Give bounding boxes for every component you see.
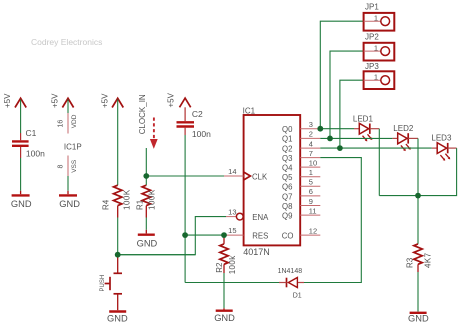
LED LED1	[359, 123, 372, 141]
pin stub Q5 pin 1	[300, 176, 320, 178]
pin name CO	[282, 231, 294, 240]
svg-text:CLOCK_IN: CLOCK_IN	[138, 94, 147, 134]
label C1	[26, 128, 37, 138]
pin stub Q6 pin 5	[300, 185, 320, 187]
svg-text:CLK: CLK	[252, 173, 268, 182]
label LED1	[353, 114, 374, 123]
wire ENA net	[118, 217, 237, 255]
label R4	[102, 199, 111, 210]
svg-text:Q5: Q5	[282, 173, 293, 182]
pin stub Q0 pin 3	[300, 128, 320, 130]
pin number 12	[309, 226, 317, 235]
svg-text:C2: C2	[192, 109, 203, 119]
label PUSH	[100, 275, 106, 292]
svg-text:Q6: Q6	[282, 183, 292, 192]
svg-text:Codrey Electronics: Codrey Electronics	[31, 37, 102, 47]
svg-text:JP1: JP1	[365, 3, 379, 12]
pin number 3	[309, 120, 313, 129]
pin number 7	[309, 149, 313, 158]
pin number 14	[228, 167, 236, 176]
svg-text:CO: CO	[282, 231, 294, 240]
ground symbol (R1)	[137, 230, 158, 249]
resistor R4	[114, 185, 122, 217]
label JP3	[365, 62, 379, 71]
IC1P VSS pin 8	[57, 156, 78, 177]
label JP1	[365, 3, 379, 12]
capacitor C1	[12, 133, 29, 158]
resistor R1	[142, 176, 150, 218]
power +5V supply symbol (C1 column)	[3, 93, 26, 108]
wire JP2 to Q output	[330, 51, 364, 138]
wire +5V to R4	[117, 100, 119, 186]
svg-text:+5V: +5V	[167, 92, 176, 107]
pin number 15	[228, 226, 236, 235]
pin 1 label (JP2)	[374, 43, 378, 52]
wire LED2 cathode down to rail	[408, 138, 418, 195]
capacitor C2	[177, 107, 195, 135]
svg-text:16: 16	[57, 120, 64, 128]
svg-text:100n: 100n	[192, 129, 211, 139]
wire Q0 row to LED1	[320, 128, 359, 130]
pin number 1	[309, 168, 313, 177]
label R2	[215, 262, 224, 273]
svg-text:VDD: VDD	[71, 114, 78, 128]
pin number 13	[228, 207, 236, 216]
clock input dashed arrow	[150, 118, 158, 149]
pin stub CO pin 12	[300, 234, 320, 236]
pin 1 label (JP3)	[374, 72, 378, 81]
junction node RES/R2	[221, 232, 227, 238]
pin name Q6	[282, 183, 292, 192]
ground symbol (R3)	[408, 313, 429, 324]
svg-text:PUSH: PUSH	[100, 275, 106, 292]
title text Codrey Electronics	[31, 37, 102, 47]
wire R4 to junction	[117, 218, 119, 255]
svg-text:LED3: LED3	[431, 134, 452, 143]
svg-text:100K: 100K	[122, 189, 131, 210]
value 4K7 (R3)	[423, 252, 432, 268]
wire RES horizontal	[185, 234, 224, 236]
svg-text:R3: R3	[405, 257, 414, 268]
wire R3 to ground	[417, 272, 419, 312]
svg-text:4: 4	[309, 139, 313, 148]
pin name Q0	[282, 125, 293, 134]
svg-text:1N4148: 1N4148	[278, 268, 303, 275]
label LED3	[431, 134, 452, 143]
wire LED3 cathode down to rail	[379, 148, 456, 196]
connector JP1	[364, 13, 395, 31]
pin stub Q4 pin 10	[300, 166, 320, 168]
svg-text:2: 2	[309, 130, 313, 139]
LED LED2	[398, 133, 411, 151]
svg-text:Q3: Q3	[282, 154, 292, 163]
junction node CLK/R1	[143, 173, 149, 179]
wire R1 to ground	[145, 218, 147, 230]
label JP2	[365, 33, 379, 42]
pin number 10	[309, 158, 317, 167]
wire JP1 to Q output	[320, 21, 363, 129]
label D1	[293, 292, 302, 299]
LED LED3	[437, 143, 450, 161]
pin stub Q7 pin 6	[300, 195, 320, 197]
wire Q3 to D1 (reset net)	[304, 158, 361, 283]
value 4017N	[243, 247, 270, 257]
svg-text:RES: RES	[252, 231, 268, 240]
svg-text:13: 13	[228, 207, 236, 216]
value 1N4148 (D1)	[278, 268, 303, 275]
svg-text:GND: GND	[214, 313, 235, 323]
power +5V supply symbol (C2 column)	[167, 92, 191, 107]
pin 14 stub (CLK)	[224, 175, 244, 177]
svg-text:9: 9	[309, 197, 313, 206]
pin number 6	[309, 187, 313, 196]
wire Q2 row to LED3	[320, 147, 437, 149]
pin name CLK	[252, 173, 268, 182]
pin name ENA	[252, 213, 269, 222]
pin name Q2	[282, 144, 292, 153]
pin name RES	[252, 231, 268, 240]
value 100n (C1)	[26, 149, 45, 159]
svg-text:100K: 100K	[148, 189, 157, 210]
pin number 11	[309, 206, 317, 215]
pushbutton PUSH	[105, 258, 122, 311]
svg-text:5: 5	[309, 178, 313, 187]
svg-text:+5V: +5V	[51, 93, 60, 108]
wire R2 to ground	[223, 273, 225, 308]
junction node JP2 net	[327, 136, 333, 142]
label C2	[192, 109, 203, 119]
power +5V supply symbol (IC1P column)	[51, 93, 74, 108]
power +5V supply symbol (R4 column)	[100, 93, 123, 108]
wire +5V to IC1P VDD	[67, 100, 69, 114]
svg-text:15: 15	[228, 226, 236, 235]
svg-text:Q8: Q8	[282, 202, 292, 211]
junction node C2/RES/D1	[182, 232, 188, 238]
svg-text:GND: GND	[107, 314, 128, 324]
pin name Q5	[282, 173, 293, 182]
net label CLOCK_IN	[138, 94, 147, 134]
ground symbol (R2)	[214, 308, 235, 323]
pin name Q4	[282, 163, 293, 172]
ground symbol (C1)	[11, 191, 32, 209]
svg-text:R2: R2	[215, 262, 224, 273]
pin stub Q8 pin 9	[300, 205, 320, 207]
junction node JP1 net	[317, 126, 323, 132]
IC IC1 4017 box	[244, 115, 301, 245]
svg-text:D1: D1	[293, 292, 302, 299]
svg-text:LED2: LED2	[393, 124, 414, 133]
wire rail to R3	[417, 196, 419, 244]
connector JP2	[364, 43, 395, 61]
svg-text:Q4: Q4	[282, 163, 293, 172]
svg-text:1: 1	[374, 72, 378, 81]
svg-text:1: 1	[309, 168, 313, 177]
svg-text:IC1P: IC1P	[64, 143, 82, 152]
svg-text:Q1: Q1	[282, 135, 292, 144]
pin stub Q9 pin 11	[300, 214, 320, 216]
ENA inverter bubble	[236, 213, 243, 220]
svg-text:JP3: JP3	[365, 62, 379, 71]
value 100k (R2)	[228, 255, 237, 275]
svg-text:JP2: JP2	[365, 33, 379, 42]
wire ENA net horizontal segment	[118, 254, 196, 256]
svg-text:+5V: +5V	[3, 93, 12, 108]
svg-text:10: 10	[309, 158, 317, 167]
svg-text:3: 3	[309, 120, 313, 129]
label R3	[405, 257, 414, 268]
wire +5V to C1	[20, 100, 22, 134]
ground symbol (PUSH)	[107, 312, 128, 324]
pin 1 label (JP1)	[374, 13, 378, 22]
pin name Q1	[282, 135, 292, 144]
wire Q1 row to LED2	[320, 137, 397, 139]
label IC1	[243, 107, 256, 116]
svg-text:VSS: VSS	[71, 159, 78, 173]
label R1	[136, 199, 145, 210]
wire JP3 to Q output	[340, 80, 364, 148]
resistor R3	[414, 244, 422, 272]
value 100K (R1)	[148, 189, 157, 210]
pin number 2	[309, 130, 313, 139]
svg-text:7: 7	[309, 149, 313, 158]
pin number 5	[309, 178, 313, 187]
net stub CLOCK_IN	[145, 148, 147, 176]
pin 15 stub (RES)	[224, 234, 244, 236]
part label IC1P	[64, 143, 82, 152]
svg-text:R1: R1	[136, 199, 145, 210]
value 100n (C2)	[192, 129, 211, 139]
svg-text:GND: GND	[408, 313, 429, 323]
wire CLK net	[146, 175, 224, 177]
junction node R4/ENA/PUSH	[115, 252, 121, 258]
wire LED1 cathode down to rail	[370, 129, 380, 196]
svg-text:4K7: 4K7	[423, 252, 432, 268]
svg-text:IC1: IC1	[243, 107, 256, 116]
wire C1 to ground	[20, 158, 22, 191]
svg-text:Q7: Q7	[282, 192, 292, 201]
pin stub Q2 pin 4	[300, 147, 320, 149]
wire RES node down to D1 wire	[184, 235, 186, 282]
svg-text:12: 12	[309, 226, 317, 235]
value 100K (R4)	[122, 189, 131, 210]
svg-text:6: 6	[309, 187, 313, 196]
resistor R2	[220, 235, 228, 273]
pin name Q9	[282, 212, 292, 221]
svg-text:4017N: 4017N	[243, 247, 270, 257]
svg-text:C1: C1	[26, 128, 37, 138]
pin stub Q3 pin 7	[300, 157, 320, 159]
svg-text:1: 1	[374, 43, 378, 52]
junction node JP3 net	[337, 145, 343, 151]
pin name Q7	[282, 192, 292, 201]
clock wedge on CLK pin	[244, 172, 251, 180]
svg-text:Q2: Q2	[282, 144, 292, 153]
svg-text:1: 1	[374, 13, 378, 22]
pin stub Q1 pin 2	[300, 137, 320, 139]
wire IC1P VSS to ground	[67, 176, 69, 191]
svg-text:LED1: LED1	[353, 114, 374, 123]
connector JP3	[364, 71, 395, 89]
IC1P VDD pin 16	[57, 113, 78, 134]
pin number 9	[309, 197, 313, 206]
svg-text:GND: GND	[137, 238, 158, 248]
svg-text:Q9: Q9	[282, 212, 292, 221]
wire D1 to RES node	[185, 282, 279, 284]
junction node LED rail / R3	[415, 193, 421, 199]
svg-text:8: 8	[57, 165, 64, 169]
pin number 4	[309, 139, 313, 148]
svg-text:R4: R4	[102, 199, 111, 210]
svg-text:ENA: ENA	[252, 213, 269, 222]
pin name Q8	[282, 202, 292, 211]
svg-text:+5V: +5V	[100, 93, 109, 108]
wire C2 down to RES node	[184, 135, 186, 235]
svg-text:11: 11	[309, 206, 317, 215]
pin name Q3	[282, 154, 292, 163]
svg-text:GND: GND	[11, 199, 32, 209]
svg-text:Q0: Q0	[282, 125, 293, 134]
svg-text:14: 14	[228, 167, 236, 176]
svg-text:100n: 100n	[26, 149, 45, 159]
svg-text:GND: GND	[59, 199, 80, 209]
svg-text:100k: 100k	[228, 255, 237, 275]
ground symbol (IC1P)	[59, 191, 80, 209]
label LED2	[393, 124, 414, 133]
diode D1	[279, 278, 304, 288]
